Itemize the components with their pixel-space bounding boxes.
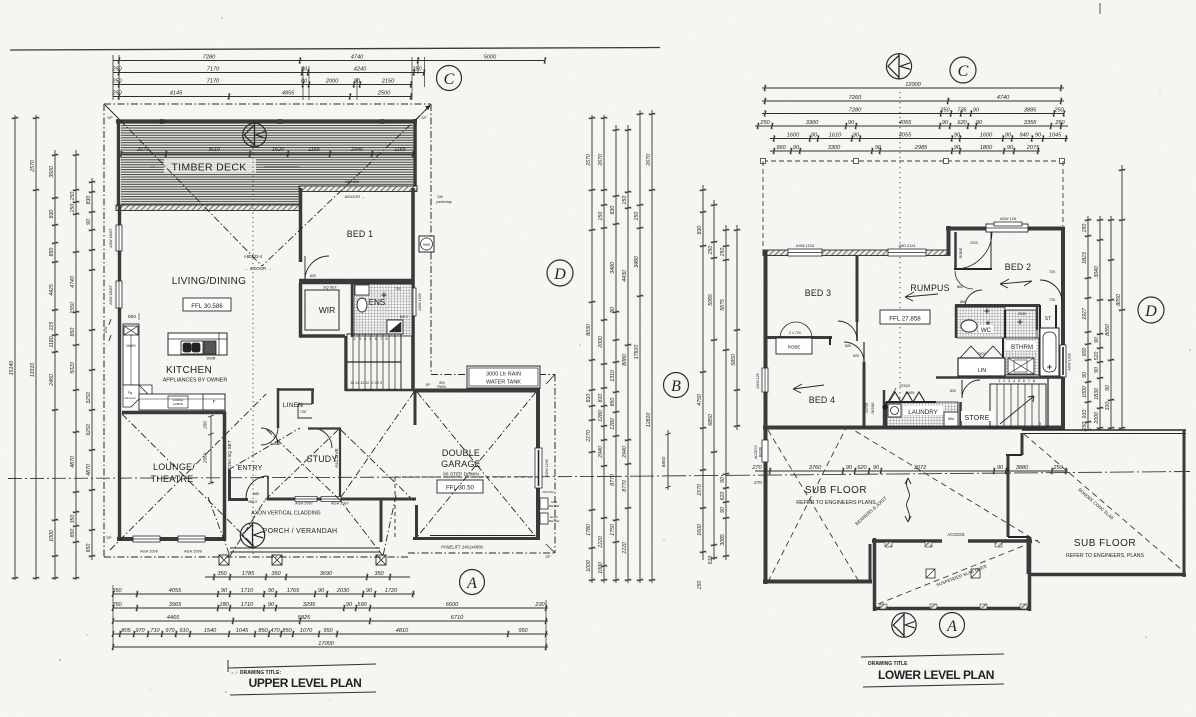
right subfloor right wall xyxy=(1183,430,1186,577)
wir bottom wall xyxy=(299,334,345,338)
roof corner diagonal top-right xyxy=(416,105,430,120)
svg-text:WC: WC xyxy=(981,327,992,334)
svg-text:1830: 1830 xyxy=(1094,388,1100,400)
study area diagonals xyxy=(265,428,340,500)
svg-text:2075: 2075 xyxy=(136,147,150,153)
lounge X diagonal 2 xyxy=(110,394,266,550)
svg-text:960: 960 xyxy=(776,145,786,151)
upper title tick xyxy=(227,660,229,672)
right subfloor diagonal xyxy=(1024,434,1182,570)
svg-text:2670: 2670 xyxy=(646,154,652,167)
svg-text:4810: 4810 xyxy=(396,628,409,634)
svg-text:350: 350 xyxy=(271,571,281,577)
svg-text:17000: 17000 xyxy=(318,641,334,647)
svg-text:250: 250 xyxy=(697,581,703,591)
label BTHRM xyxy=(1006,341,1036,351)
svg-text:2220: 2220 xyxy=(598,536,604,549)
svg-text:3500: 3500 xyxy=(49,166,55,178)
svg-text:2460: 2460 xyxy=(49,374,55,387)
bed3 door arc xyxy=(838,321,857,340)
svg-text:1 2 3 4 5 6 7 8: 1 2 3 4 5 6 7 8 xyxy=(998,378,1036,383)
svg-text:Admes4: Admes4 xyxy=(124,396,135,400)
svg-text:ASW 128: ASW 128 xyxy=(1000,217,1016,221)
svg-text:LOWER LEVEL PLAN: LOWER LEVEL PLAN xyxy=(878,668,994,682)
svg-text:1600: 1600 xyxy=(697,524,703,536)
rplan left chain 4 xyxy=(731,225,740,430)
svg-text:1165: 1165 xyxy=(394,147,407,153)
svg-text:ASW 1209: ASW 1209 xyxy=(1068,353,1072,370)
kitchen sink xyxy=(181,341,216,354)
lounge vertical dim xyxy=(203,415,214,484)
svg-text:850: 850 xyxy=(49,248,55,257)
svg-text:720: 720 xyxy=(300,410,306,414)
svg-text:4430: 4430 xyxy=(622,270,628,282)
svg-text:910: 910 xyxy=(708,556,714,565)
ens fixture marks xyxy=(381,287,408,319)
deck hatch planks xyxy=(121,124,413,205)
store door arc xyxy=(962,380,980,398)
wc left wall xyxy=(955,305,958,338)
mid chain 1 xyxy=(586,115,595,583)
wc top wall xyxy=(955,304,1040,307)
svg-text:8/DOOR ←: 8/DOOR ← xyxy=(345,194,365,199)
svg-text:BED 1: BED 1 xyxy=(347,229,373,239)
upper floor outline corner squares xyxy=(761,159,766,164)
svg-text:805: 805 xyxy=(121,628,131,634)
upper floor dashed outline top xyxy=(763,160,1063,162)
garage roof outline top xyxy=(431,374,555,376)
water tank box xyxy=(467,366,540,388)
svg-text:470: 470 xyxy=(270,628,280,634)
left wall access door xyxy=(762,440,768,462)
svg-text:3760: 3760 xyxy=(809,465,822,471)
dim row 4145/4855/2500 xyxy=(111,90,412,100)
svg-text:AGH 2009: AGH 2009 xyxy=(184,550,202,554)
svg-text:A: A xyxy=(466,575,477,592)
svg-text:8770: 8770 xyxy=(610,474,616,486)
rplan right chain 4 xyxy=(1116,165,1125,430)
dim row 7280/4740/5000 xyxy=(113,54,546,64)
svg-text:1540: 1540 xyxy=(204,628,217,634)
section bubble B right plan xyxy=(664,373,689,398)
svg-text:MWS: MWS xyxy=(126,344,136,348)
svg-text:1620: 1620 xyxy=(272,147,284,153)
svg-text:720: 720 xyxy=(1049,270,1055,274)
svg-text:2940: 2940 xyxy=(598,446,604,459)
svg-text:1780: 1780 xyxy=(586,524,592,536)
right top wall window A5D2124 xyxy=(888,249,926,256)
ens toilet xyxy=(357,298,367,312)
bed1 right wall window xyxy=(410,288,416,316)
svg-text:ASW 125: ASW 125 xyxy=(756,373,760,388)
svg-text:2500: 2500 xyxy=(377,90,391,96)
bed4 robe strip xyxy=(865,390,884,428)
svg-text:METER: METER xyxy=(549,519,560,523)
bed4 arrow xyxy=(793,384,824,393)
svg-text:250: 250 xyxy=(759,120,770,126)
svg-text:2075: 2075 xyxy=(1026,145,1040,151)
svg-text:6850: 6850 xyxy=(661,456,667,467)
svg-text:RWSL: RWSL xyxy=(437,385,446,389)
svg-text:90: 90 xyxy=(846,465,853,471)
svg-text:AUBCE: AUBCE xyxy=(173,402,183,406)
svg-text:2950: 2950 xyxy=(203,452,208,464)
slab room right wall xyxy=(1028,538,1032,611)
roof valley diagonal from top-left xyxy=(120,120,262,266)
porch post 2 xyxy=(272,555,282,565)
svg-text:90: 90 xyxy=(720,507,726,513)
svg-text:15 14 13 12 11 10 9: 15 14 13 12 11 10 9 xyxy=(350,381,382,385)
linen door arcs xyxy=(261,428,278,445)
bottom rows right extension xyxy=(545,600,547,650)
svg-text:k ↗ .?: k ↗ .? xyxy=(232,670,244,675)
garage X diagonal 1 xyxy=(417,392,536,537)
svg-text:8030: 8030 xyxy=(586,324,592,336)
svg-text:90: 90 xyxy=(268,588,275,594)
svg-text:2000: 2000 xyxy=(598,336,604,349)
mid chain 4 xyxy=(622,125,631,583)
svg-text:17810: 17810 xyxy=(634,345,640,360)
svg-text:1720: 1720 xyxy=(385,588,398,594)
svg-text:1800: 1800 xyxy=(980,145,993,151)
svg-text:1765: 1765 xyxy=(287,588,300,594)
slab hatched square 2 xyxy=(971,569,980,578)
svg-text:8080: 8080 xyxy=(622,354,628,366)
svg-text:1280: 1280 xyxy=(598,410,604,422)
dim row 7170/4240 xyxy=(111,66,425,76)
svg-text:3480: 3480 xyxy=(634,256,640,268)
upper floor dashed outline left xyxy=(762,161,764,249)
wir-ens divider xyxy=(351,283,354,337)
svg-text:350: 350 xyxy=(112,588,122,594)
svg-text:2020: 2020 xyxy=(970,241,978,245)
laundry dark dot xyxy=(882,404,887,409)
svg-text:ASW 1806T: ASW 1806T xyxy=(109,228,113,248)
left chain 3 xyxy=(49,150,58,580)
svg-text:1045: 1045 xyxy=(1049,132,1062,138)
garage right wall xyxy=(536,390,540,540)
svg-text:LIVING/DINING: LIVING/DINING xyxy=(172,276,246,287)
deck top wall xyxy=(116,119,417,123)
svg-text:1000: 1000 xyxy=(586,560,592,572)
subfloor squiggle arrow xyxy=(905,478,911,522)
svg-text:4870: 4870 xyxy=(70,456,76,468)
right plan right wall xyxy=(1061,228,1065,430)
alcove X diagonals xyxy=(341,430,414,501)
svg-text:1070: 1070 xyxy=(300,628,313,634)
svg-text:panbertap: panbertap xyxy=(436,200,451,204)
bottom dim row 2 xyxy=(111,602,548,612)
deck dim labels xyxy=(136,147,407,153)
svg-text:90: 90 xyxy=(318,588,325,594)
svg-text:5020: 5020 xyxy=(70,362,76,374)
left subfloor bottom wall xyxy=(763,580,872,584)
svg-text:250: 250 xyxy=(720,248,726,258)
svg-text:DOUBLE: DOUBLE xyxy=(442,448,480,458)
label LAUNDRY xyxy=(903,406,943,416)
laundry top wall xyxy=(886,401,936,403)
right top wall window ASW1215 xyxy=(788,249,822,256)
left chain 15140 xyxy=(9,115,18,580)
svg-text:2670: 2670 xyxy=(598,154,604,167)
svg-text:90: 90 xyxy=(268,602,275,608)
right dim row 1600/1610/4055 xyxy=(770,132,1068,142)
lounge bottom wall xyxy=(117,537,226,541)
svg-text:C: C xyxy=(958,63,969,80)
svg-text:STORE: STORE xyxy=(965,415,990,422)
bottom dim row total 17000 xyxy=(112,641,548,651)
svg-text:1823: 1823 xyxy=(1082,252,1088,264)
subfloor diagonal left up xyxy=(768,426,847,582)
svg-text:90: 90 xyxy=(1105,385,1111,391)
svg-text:970: 970 xyxy=(165,628,175,634)
wir-ens top wall xyxy=(299,282,413,285)
svg-text:700: 700 xyxy=(395,287,401,291)
svg-text:650: 650 xyxy=(128,314,136,320)
svg-text:5000: 5000 xyxy=(484,54,497,60)
svg-text:DP+RW: DP+RW xyxy=(543,490,554,494)
svg-text:DRAWING TITLE: DRAWING TITLE xyxy=(868,661,908,667)
bed1 top wall hatched xyxy=(299,186,417,192)
garage left wall upper xyxy=(414,390,417,425)
svg-text:1785: 1785 xyxy=(242,571,255,577)
svg-text:D: D xyxy=(553,266,566,283)
svg-text:3000 Ltr RAIN: 3000 Ltr RAIN xyxy=(486,372,521,378)
svg-text:80: 80 xyxy=(610,307,616,313)
svg-text:250: 250 xyxy=(939,107,950,113)
svg-text:880: 880 xyxy=(253,492,259,496)
svg-text:230: 230 xyxy=(534,602,545,608)
left subfloor right wall xyxy=(869,544,872,582)
svg-text:FFL 30.50: FFL 30.50 xyxy=(446,485,475,492)
svg-text:250: 250 xyxy=(1053,107,1064,113)
svg-text:BED 4: BED 4 xyxy=(809,395,835,405)
svg-text:250: 250 xyxy=(622,196,628,206)
svg-text:250: 250 xyxy=(708,246,714,256)
svg-text:4240: 4240 xyxy=(354,66,367,72)
svg-text:850: 850 xyxy=(70,529,76,538)
lounge bottom window 2 xyxy=(178,536,205,542)
svg-text:720: 720 xyxy=(1049,298,1055,302)
bed2 arrow xyxy=(1000,279,1032,288)
svg-text:4740: 4740 xyxy=(997,95,1010,101)
svg-text:950: 950 xyxy=(323,628,333,634)
svg-text:3085: 3085 xyxy=(720,534,726,546)
rplan right chain 2 xyxy=(1094,216,1103,430)
lounge X diagonal 1 xyxy=(122,414,254,546)
slab room diagonal xyxy=(878,540,1038,604)
mid chain 6 xyxy=(646,110,655,583)
bed2 step connector wall xyxy=(947,226,951,256)
svg-text:5850: 5850 xyxy=(731,354,737,366)
svg-text:86 STEP DOWN: 86 STEP DOWN xyxy=(443,472,479,478)
right dim total 12000 xyxy=(762,82,1064,92)
right dim row 3300/4055/3355 xyxy=(755,120,1068,130)
svg-text:ASW 1235: ASW 1235 xyxy=(545,459,549,476)
svg-text:ROBE: ROBE xyxy=(959,247,963,258)
porch steps lines xyxy=(230,548,380,552)
svg-text:REFER TO ENGINEERS, PLANS: REFER TO ENGINEERS, PLANS xyxy=(1066,553,1144,559)
svg-text:3690: 3690 xyxy=(320,571,333,577)
svg-text:13310: 13310 xyxy=(30,363,36,378)
svg-text:5825: 5825 xyxy=(298,615,311,621)
svg-text:TIMBER DECK: TIMBER DECK xyxy=(171,162,246,174)
rplan left chain 1 xyxy=(697,185,706,590)
svg-text:BED 2: BED 2 xyxy=(1005,262,1031,272)
svg-text:5675: 5675 xyxy=(720,299,726,311)
wc fixture crosses xyxy=(984,310,989,312)
svg-text:ASW 1215: ASW 1215 xyxy=(796,244,814,248)
svg-text:ASW 1209: ASW 1209 xyxy=(418,293,422,310)
svg-text:WIR: WIR xyxy=(319,305,336,315)
svg-text:4465: 4465 xyxy=(167,615,180,621)
svg-text:2270: 2270 xyxy=(586,430,592,443)
store-stair top wall xyxy=(936,376,1063,379)
svg-text:WATER TANK: WATER TANK xyxy=(486,380,521,386)
svg-text:9250: 9250 xyxy=(86,424,92,436)
svg-text:820: 820 xyxy=(950,389,956,393)
svg-text:90: 90 xyxy=(1082,372,1088,378)
section dotted line vertical xyxy=(252,148,254,556)
upper title top line xyxy=(228,664,376,668)
svg-text:970: 970 xyxy=(135,628,145,634)
svg-text:270: 270 xyxy=(754,480,762,485)
wir left wall xyxy=(299,283,303,337)
svg-text:4425: 4425 xyxy=(49,284,55,296)
svg-text:← 8/DOOR →: ← 8/DOOR → xyxy=(245,266,272,271)
svg-text:22k: 22k xyxy=(437,195,443,199)
svg-text:90: 90 xyxy=(346,602,353,608)
svg-text:2570: 2570 xyxy=(30,160,36,173)
svg-text:6710: 6710 xyxy=(451,615,464,621)
bed2 robe closet xyxy=(954,232,992,270)
svg-text:LAUNDRY: LAUNDRY xyxy=(908,409,937,416)
svg-text:3295: 3295 xyxy=(303,602,316,608)
svg-text:710: 710 xyxy=(150,628,160,634)
garage roof outline bottom xyxy=(408,552,555,554)
svg-text:350: 350 xyxy=(217,571,227,577)
svg-text:3300: 3300 xyxy=(806,120,819,126)
svg-text:860: 860 xyxy=(957,285,963,289)
linen closet xyxy=(277,388,314,428)
svg-text:90: 90 xyxy=(1007,145,1014,151)
svg-text:2000: 2000 xyxy=(325,78,339,84)
label STORE xyxy=(961,411,993,422)
svg-text:270: 270 xyxy=(751,465,762,471)
svg-text:820: 820 xyxy=(310,274,316,278)
svg-text:12810: 12810 xyxy=(646,413,652,428)
svg-text:90: 90 xyxy=(1094,367,1100,373)
svg-text:GARAGE: GARAGE xyxy=(441,459,481,469)
section bubble A right plan xyxy=(940,613,965,638)
laundry wm box xyxy=(944,412,958,426)
svg-text:820: 820 xyxy=(845,344,851,348)
svg-text:90: 90 xyxy=(301,66,308,72)
svg-text:6405: 6405 xyxy=(906,390,916,395)
svg-text:3885: 3885 xyxy=(1024,107,1037,113)
svg-text:310: 310 xyxy=(1105,402,1111,411)
mid chain 2 xyxy=(598,115,607,583)
shower room tiles xyxy=(1005,310,1037,338)
svg-text:Fly: Fly xyxy=(128,391,133,395)
bottom dim row 3 xyxy=(112,615,548,625)
svg-text:8050: 8050 xyxy=(1105,324,1111,336)
right plan top wall hatched xyxy=(763,250,950,256)
section bubble C left plan xyxy=(437,66,462,91)
bed1 left wall segment xyxy=(299,188,303,262)
bed2 robe door arc xyxy=(955,232,992,269)
svg-text:4740: 4740 xyxy=(70,276,76,288)
svg-text:90: 90 xyxy=(848,120,855,126)
svg-text:ROBE: ROBE xyxy=(788,345,801,350)
svg-text:250: 250 xyxy=(411,66,422,72)
right subfloor left notch xyxy=(1006,433,1030,574)
page top border line xyxy=(10,48,660,51)
svg-text:900: 900 xyxy=(1082,348,1088,357)
svg-text:4055: 4055 xyxy=(169,588,182,594)
svg-text:BED 3: BED 3 xyxy=(805,288,831,298)
svg-text:8050: 8050 xyxy=(1116,294,1122,306)
lounge top wall xyxy=(122,411,226,415)
svg-text:620: 620 xyxy=(857,465,867,471)
living FFL box xyxy=(183,298,231,311)
svg-text:1180: 1180 xyxy=(49,336,55,347)
wir closet rect xyxy=(305,290,339,330)
svg-text:860: 860 xyxy=(960,300,966,304)
roof corner diagonal top-left xyxy=(105,105,120,120)
stair bottom wall xyxy=(345,389,413,392)
porch right wall xyxy=(380,498,383,542)
shower room walls xyxy=(1005,305,1037,338)
svg-text:90: 90 xyxy=(366,588,373,594)
svg-text:2150: 2150 xyxy=(381,78,395,84)
bed4 right wall xyxy=(863,362,866,428)
svg-text:520: 520 xyxy=(1094,352,1100,361)
kitchen wall bench column xyxy=(123,324,139,385)
svg-text:UPPER LEVEL PLAN: UPPER LEVEL PLAN xyxy=(249,676,362,690)
roof overhang outline left xyxy=(103,104,105,557)
svg-text:2020: 2020 xyxy=(978,352,986,356)
svg-text:4055: 4055 xyxy=(899,132,912,138)
right plan section dotted vertical xyxy=(899,92,901,428)
lower title bottom line xyxy=(863,684,1004,687)
svg-text:A50 55A: A50 55A xyxy=(345,180,360,184)
svg-text:15140: 15140 xyxy=(9,361,15,376)
lounge right wall xyxy=(223,412,227,541)
deck internal dim line xyxy=(120,151,414,158)
rplan left chain 2 xyxy=(708,200,717,564)
subfloor dim row xyxy=(751,465,1068,475)
svg-text:4855: 4855 xyxy=(282,90,295,96)
svg-text:C: C xyxy=(444,71,455,88)
garage door panel lines xyxy=(430,535,535,537)
svg-text:1280: 1280 xyxy=(610,418,616,430)
svg-text:5065: 5065 xyxy=(708,294,714,306)
svg-text:850: 850 xyxy=(258,628,268,634)
svg-text:1000: 1000 xyxy=(1082,386,1088,398)
kitchen pantry corner xyxy=(123,385,152,407)
svg-text:2000: 2000 xyxy=(1094,412,1100,425)
svg-text:850: 850 xyxy=(610,398,616,407)
rplan right chain 3 xyxy=(1105,216,1114,430)
svg-text:90: 90 xyxy=(954,132,961,138)
entry passage walls xyxy=(228,470,248,501)
svg-text:90: 90 xyxy=(942,120,949,126)
svg-text:7170: 7170 xyxy=(207,66,220,72)
svg-text:850: 850 xyxy=(282,628,292,634)
svg-text:7170: 7170 xyxy=(207,78,220,84)
deck small post marks xyxy=(160,120,384,124)
